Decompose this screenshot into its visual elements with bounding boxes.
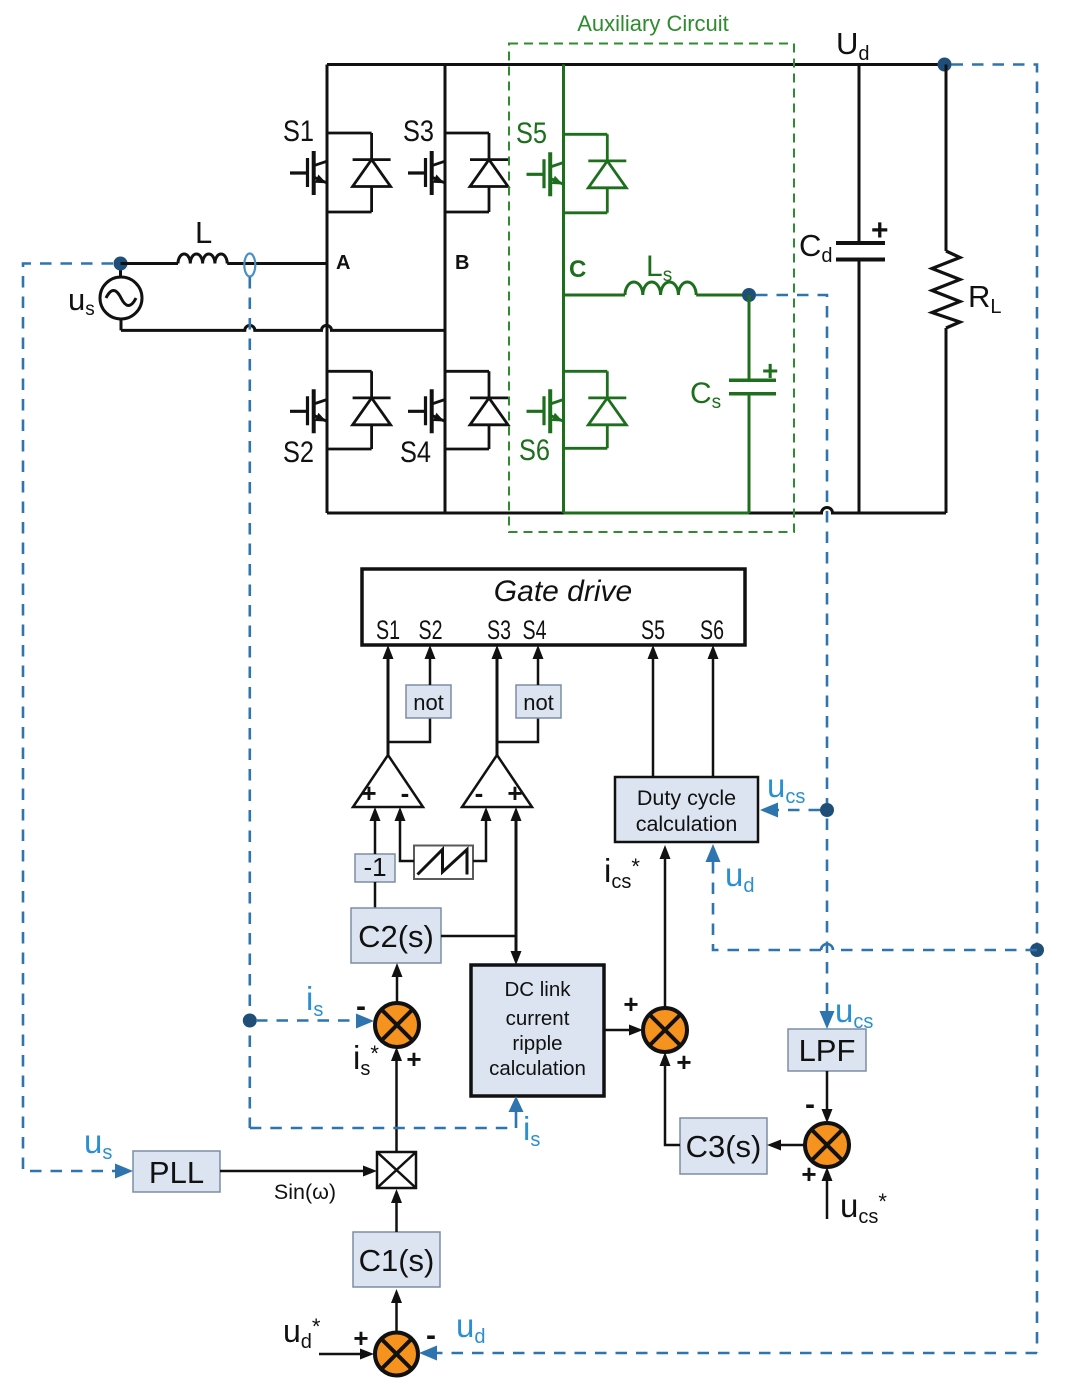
svg-text:+: + [623,989,638,1019]
wire: ucs sense dashed from Cs node [756,295,827,1013]
svg-text:+: + [507,778,522,808]
svg-text:S2: S2 [419,615,443,645]
wire: SUM2 to duty box (ics*) [664,858,667,1008]
svg-text:calculation: calculation [489,1057,586,1080]
wire: C2 output to ripple box [515,936,518,952]
carrier sawtooth block [414,846,473,880]
svg-text:S1: S1 [376,615,400,645]
comparator CMP2 [462,755,532,807]
node us dot [114,257,128,271]
wire: SUM3 to C3 [781,1144,805,1147]
logic not1 [406,685,451,718]
wire: SUM1 to C2 [396,976,399,1003]
inductor Ls [625,282,696,295]
svg-text:C1(s): C1(s) [359,1243,435,1278]
summer SUM4 (ud) [375,1333,418,1376]
svg-text:-: - [475,778,484,808]
svg-text:+: + [762,355,778,386]
wire: is sense dashed vertical [249,277,252,1128]
wire: C2 output [441,935,516,938]
node Ud dot [938,58,952,72]
block PLL [133,1151,220,1192]
wire: CMP2 output to S3 [496,658,499,755]
wire: leg B [444,65,447,514]
svg-text:+: + [361,778,376,808]
wire: C3 to SUM2 [665,1065,680,1145]
wire: not1 to S2 [429,658,432,685]
DC link ripple box [471,965,604,1096]
node ud dot [1030,943,1044,957]
svg-text:S5: S5 [641,615,665,645]
resistor RL [932,65,960,514]
svg-text:Gate drive: Gate drive [494,575,632,608]
wire: Ud sense dashed right side [952,65,1038,1354]
summer SUM2 (ics) [643,1008,687,1052]
wire: X1 to SUM1 [395,1060,398,1152]
node Cs dot [742,288,756,302]
wire: ud* input arrow [319,1353,360,1356]
wire: bottom DC bus right with hop [749,508,946,514]
svg-text:S6: S6 [519,434,550,467]
svg-text:+: + [871,214,889,247]
comparator CMP1 [353,755,423,807]
summer SUM3 (ucs) [805,1123,849,1167]
svg-text:current: current [506,1007,570,1030]
wire: is dashed branch to SUM1 [256,1019,358,1022]
svg-text:C: C [569,256,586,283]
svg-text:+: + [353,1323,368,1353]
svg-text:PLL: PLL [149,1155,204,1190]
transistor S6 (green) [527,371,627,448]
svg-text:+: + [676,1047,691,1077]
controller C3(s) [680,1118,767,1174]
node is dot [243,1014,257,1028]
wire: LPF to SUM3 [826,1071,829,1110]
svg-text:S3: S3 [403,115,434,148]
svg-text:S4: S4 [523,615,547,645]
svg-text:S4: S4 [400,436,431,469]
wire: duty box to S5 [652,658,655,777]
controller C2(s) [351,908,441,963]
wire: is dashed bottom run to ripple box [250,1127,516,1130]
svg-text:Duty cycle: Duty cycle [637,786,736,810]
wire: ripple box to SUM2 [604,1029,630,1032]
wire: ucs dashed branch to duty box [777,809,820,812]
wire: bottom DC bus left [327,512,564,515]
svg-text:S6: S6 [700,615,724,645]
wire: CMP2 branch to not2 [497,718,538,742]
wire: sawtooth to CMP2 minus [473,820,486,861]
capacitor Cd [836,65,885,514]
svg-text:not: not [523,690,554,715]
svg-text:S5: S5 [516,117,547,150]
wire: leg A [326,65,329,514]
svg-text:-: - [401,778,410,808]
wire: SUM4 to C1 [395,1302,398,1332]
auxiliary circuit dashed box [509,44,794,533]
node ucs dot [820,803,834,817]
svg-text:not: not [413,690,444,715]
wire: C1 to X1 [395,1202,398,1232]
svg-text:-1: -1 [363,852,386,882]
logic not2 [516,685,561,718]
wire: top DC bus [327,63,945,66]
wire: -1 to CMP1 plus [374,820,377,854]
wire: C2 output to CMP2 plus [515,820,518,936]
wire: -1 to C2 [374,882,377,908]
svg-text:-: - [805,1088,815,1121]
svg-text:L: L [195,215,212,250]
svg-text:+: + [801,1159,816,1189]
wire: sawtooth to CMP1 minus [400,820,414,861]
wire: CMP1 output to S1 [387,658,390,755]
gain block -1 [355,854,395,882]
svg-text:C2(s): C2(s) [358,919,434,954]
gate drive box U-GD [362,569,745,645]
wire: Ls to Cs node [696,294,749,297]
svg-text:DC link: DC link [504,978,571,1001]
wire: leg C (auxiliary) [562,65,565,514]
controller C1(s) [353,1232,440,1287]
ac source us [100,264,142,331]
svg-text:Auxiliary Circuit: Auxiliary Circuit [577,11,729,36]
wire: bottom DC bus green segment [564,512,750,515]
svg-text:Sin(ω): Sin(ω) [274,1180,336,1204]
wire: ucs* input [826,1180,829,1219]
wire: source to inductor [121,262,179,265]
svg-text:S2: S2 [283,436,314,469]
svg-text:A: A [336,252,350,274]
wire: PLL to X1 [220,1170,363,1173]
capacitor Cs [729,295,776,513]
wire: source return to leg B with hops [121,325,445,330]
wire: us sense dashed (source to PLL) [23,264,118,1172]
transistor S1 (IGBT+diode cell) [290,133,391,212]
wire: not2 to S4 [537,658,540,685]
svg-text:LPF: LPF [799,1033,856,1068]
duty cycle box [615,777,758,842]
svg-text:calculation: calculation [636,812,738,836]
wire: ud dashed branch to duty box with hop [713,860,1037,950]
transistor S2 [290,371,391,449]
inductor L [178,254,227,264]
transistor S3 [408,133,508,212]
svg-text:C3(s): C3(s) [686,1129,762,1164]
transistor S5 (green) [527,134,627,213]
wire: duty box to S6 [712,658,715,777]
summer SUM1 (is) [375,1003,419,1047]
svg-text:S1: S1 [283,115,314,148]
wire: ud dashed bottom run to SUM4 [434,1352,1037,1355]
svg-text:+: + [406,1044,421,1074]
svg-text:B: B [455,252,469,274]
wire: node C to Ls [564,294,626,297]
wire: CMP1 branch to not1 [388,718,430,742]
transistor S4 [408,371,508,449]
svg-text:ripple: ripple [512,1032,562,1055]
svg-text:S3: S3 [487,615,511,645]
current sensor ellipse [244,254,255,277]
wire: inductor to node A [227,262,327,265]
filter LPF [788,1029,866,1071]
multiplier X1 [377,1152,416,1188]
